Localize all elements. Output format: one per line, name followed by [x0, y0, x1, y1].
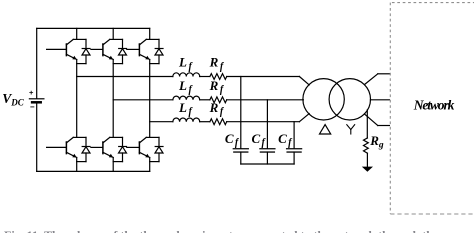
transistor Q6 bottom IGBT leg3 — [127, 137, 159, 171]
battery VDC — [29, 88, 44, 111]
wire network phase c diagonal — [364, 114, 377, 126]
svg-text:Lf: Lf — [178, 100, 194, 118]
transistor Q1 top IGBT leg1 — [47, 28, 86, 63]
svg-text:Lf: Lf — [178, 55, 194, 73]
wire phase C diagonal into transformer — [299, 114, 309, 122]
diode D2 leg2 top — [119, 39, 127, 63]
svg-text:Cf: Cf — [251, 131, 266, 149]
wire Rg lead from wye neutral — [366, 110, 368, 138]
svg-text:Rf: Rf — [209, 78, 225, 96]
wire phase A diagonal into transformer — [299, 77, 309, 85]
wire phase A to transformer — [227, 76, 300, 78]
transformer primary winding — [303, 79, 344, 120]
wire top DC rail — [37, 27, 150, 29]
svg-text:VDC: VDC — [2, 91, 25, 107]
wire phase B from leg2 — [113, 99, 173, 101]
resistor Rf phase A — [210, 74, 227, 80]
node network boundary dashed box — [390, 3, 474, 214]
capacitor Cf phase A — [233, 77, 248, 165]
transistor Q3 top IGBT leg3 — [127, 28, 159, 63]
wire battery negative lead — [36, 102, 38, 171]
wire leg2 midpoint — [112, 60, 114, 138]
resistor Rf phase B — [210, 97, 227, 103]
ground — [362, 167, 373, 172]
svg-text:Network: Network — [413, 97, 455, 112]
wire capacitor star point rail — [241, 163, 294, 165]
diode D1 leg1 top — [82, 39, 90, 63]
svg-text:Cf: Cf — [225, 131, 240, 149]
diode D3 leg3 top — [155, 39, 163, 63]
wire battery positive lead — [36, 28, 38, 98]
inductor Lf phase A — [173, 73, 200, 77]
inductor Lf phase B — [173, 96, 200, 100]
wire phase C to transformer — [227, 121, 300, 123]
svg-text:−: − — [30, 103, 35, 112]
caption (clipped at page bottom) — [4, 228, 474, 240]
wire leg3 midpoint — [149, 60, 151, 138]
label delta — [320, 125, 331, 134]
wire phase A inductor to resistor — [200, 76, 210, 78]
wire Rg to ground — [366, 153, 368, 167]
wire bottom DC rail — [37, 170, 150, 172]
transistor Q2 top IGBT leg2 — [91, 28, 123, 63]
wire network phase b stub — [370, 99, 389, 101]
wire network phase c stub — [378, 125, 390, 127]
capacitor Cf phase C — [287, 122, 302, 164]
svg-text:Cf: Cf — [278, 131, 293, 149]
svg-text:Rf: Rf — [209, 55, 225, 73]
svg-text:Lf: Lf — [178, 78, 194, 96]
transistor Q5 bottom IGBT leg2 — [91, 137, 123, 171]
svg-text:Rf: Rf — [209, 100, 225, 118]
wire phase B to transformer — [227, 99, 304, 101]
svg-text:+: + — [29, 88, 34, 97]
diode D4 leg1 bottom — [82, 137, 90, 161]
resistor Rf phase C — [210, 119, 227, 125]
diode D6 leg3 bottom — [155, 137, 163, 161]
inductor Lf phase C — [173, 118, 200, 122]
wire phase A from leg1 — [77, 76, 173, 78]
capacitor Cf phase B — [260, 100, 275, 164]
wire phase C from leg3 — [150, 121, 173, 123]
wire network phase a stub — [378, 73, 390, 75]
svg-text:Rg: Rg — [369, 133, 384, 151]
wire phase C inductor to resistor — [200, 121, 210, 123]
wire network phase a diagonal — [364, 74, 377, 85]
transistor Q4 bottom IGBT leg1 — [47, 137, 86, 171]
wire phase B inductor to resistor — [200, 99, 210, 101]
wire leg1 midpoint — [76, 60, 78, 138]
transformer secondary winding — [329, 79, 370, 120]
resistor Rg — [364, 138, 369, 153]
diode D5 leg2 bottom — [119, 137, 127, 161]
label wye — [347, 125, 355, 134]
